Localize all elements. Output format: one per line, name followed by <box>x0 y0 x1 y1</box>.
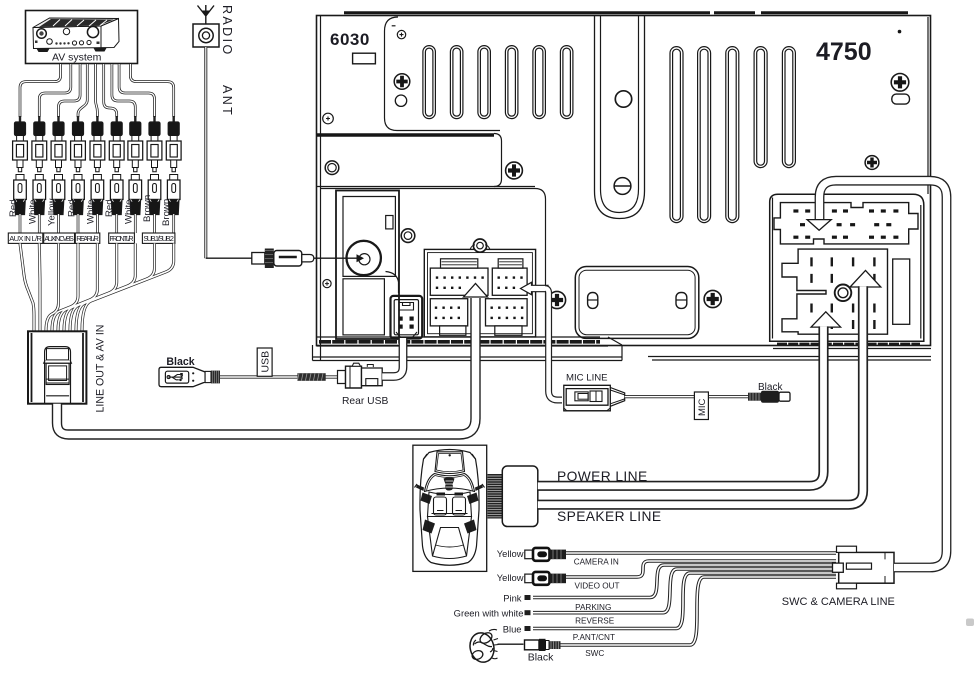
power arrow head <box>811 312 841 327</box>
svg-text:Blue: Blue <box>503 624 522 635</box>
screw right of band <box>506 162 523 179</box>
RCA column 4 Red <box>71 116 86 215</box>
wire stubs plugs to boxes <box>20 214 174 233</box>
svg-text:ANT: ANT <box>220 85 234 117</box>
svg-text:SWC: SWC <box>585 649 604 658</box>
6030 small rect <box>353 53 376 64</box>
vent slots right group <box>670 47 795 223</box>
svg-text:Red: Red <box>104 199 115 217</box>
SECTION: radioant <box>193 5 364 268</box>
wires from AV box to plugs <box>20 64 174 117</box>
unit outer body <box>317 16 931 346</box>
svg-text:Yellow: Yellow <box>497 548 524 559</box>
SECTION: isopanel <box>770 194 924 341</box>
arrow into right multipin <box>521 282 549 294</box>
svg-text:SUB.1/SUB.2: SUB.1/SUB.2 <box>143 234 174 243</box>
blank plate <box>575 267 699 339</box>
iso right slot rect <box>893 259 910 324</box>
screw tiny left edge <box>323 113 334 124</box>
SECTION: lineout <box>28 284 488 435</box>
cabin seats <box>428 492 472 517</box>
SECTION: rca <box>0 0 1 1</box>
svg-text:FRONT L/R: FRONT L/R <box>110 234 134 243</box>
connector TR <box>492 259 527 296</box>
svg-text:Green with white: Green with white <box>454 608 524 619</box>
rear speakers <box>423 520 436 534</box>
lower connector panel outline <box>321 189 546 338</box>
svg-text:REAR L/R: REAR L/R <box>76 234 99 243</box>
swc camera connector <box>833 546 895 589</box>
RCA column 9 Brown <box>166 116 181 215</box>
screw right of plate <box>704 290 721 307</box>
mic cable right <box>625 395 748 398</box>
color labels <box>454 548 524 635</box>
windshield <box>425 474 475 492</box>
screw tiny in panel <box>323 280 331 288</box>
USB tag <box>257 348 272 376</box>
amplifier drawing <box>33 18 119 52</box>
plug neck ribbed <box>205 371 211 382</box>
antenna panel small tab <box>386 216 393 229</box>
antenna jack circle <box>347 241 381 275</box>
back panel rounded corner <box>385 17 501 131</box>
screw cross mid-left <box>394 74 410 90</box>
antenna sub-panel <box>336 191 399 340</box>
braided section <box>297 373 325 381</box>
video out jack <box>525 572 566 585</box>
RCA column 1 Red <box>13 116 28 215</box>
power connector block <box>502 466 538 527</box>
SECTION: bottomrows <box>454 181 947 665</box>
svg-text:Brown: Brown <box>161 199 172 226</box>
ring on step band <box>325 161 339 175</box>
connector TL <box>430 259 488 296</box>
svg-text:AV system: AV system <box>52 52 102 64</box>
svg-text:P.ANT/CNT: P.ANT/CNT <box>573 633 615 642</box>
channel circle top <box>615 91 631 107</box>
RCA column 5 White <box>90 116 105 215</box>
speaker line cable <box>538 286 863 504</box>
svg-text:MIC LINE: MIC LINE <box>566 373 608 384</box>
svg-text:Yellow: Yellow <box>497 572 524 583</box>
small rounded slot below screw <box>892 94 910 104</box>
emblem <box>444 477 455 490</box>
screw left of plate <box>548 291 565 308</box>
vent slots left group <box>423 46 573 119</box>
small circle below screw <box>395 95 406 106</box>
SECTION: avsystem <box>26 11 138 64</box>
label box SUB.1/SUB.2 <box>142 233 175 243</box>
svg-text:SWC & CAMERA LINE: SWC & CAMERA LINE <box>782 596 895 608</box>
SECTION: rca <box>8 64 181 331</box>
SECTION: connpanel <box>323 191 721 340</box>
RCA column 8 Brown <box>147 116 162 215</box>
svg-text:VIDEO OUT: VIDEO OUT <box>575 581 620 590</box>
iso panel frame <box>770 194 924 341</box>
step band right edge <box>494 134 502 187</box>
bottom rail left <box>313 337 623 361</box>
svg-text:AUX IN L/R: AUX IN L/R <box>9 234 42 243</box>
svg-text:Black: Black <box>166 356 194 368</box>
svg-text:Black: Black <box>528 652 554 664</box>
multipin frame <box>424 249 535 337</box>
cables from boxes to lineout block <box>20 243 174 330</box>
scan artifact <box>966 619 974 627</box>
label box FRONT L/R <box>109 233 135 243</box>
power line cable <box>538 326 824 485</box>
swc barrel plug <box>525 639 561 651</box>
step band top dark edge <box>317 133 495 136</box>
svg-text:SPEAKER LINE: SPEAKER LINE <box>557 509 661 524</box>
svg-text:PARKING: PARKING <box>575 603 611 612</box>
svg-text:White: White <box>86 199 97 224</box>
steering wheel icon <box>467 629 499 664</box>
unit left inner edge <box>320 16 322 361</box>
arrow line to jack <box>314 257 357 259</box>
iso block outline <box>782 249 888 334</box>
iso block center circle <box>835 285 852 302</box>
car box <box>413 445 487 571</box>
screw cross top-right <box>891 74 909 92</box>
svg-text:Pink: Pink <box>503 593 522 604</box>
antenna plug <box>206 249 314 269</box>
label box AUX IN CVBS <box>44 233 75 243</box>
rear usb connector <box>338 363 383 388</box>
swc loop cable <box>820 181 947 568</box>
curve right of antenna panel <box>386 272 399 294</box>
svg-text:6030: 6030 <box>330 30 370 49</box>
middle channel <box>595 16 645 219</box>
multipin top ring <box>470 239 490 252</box>
svg-text:AUX IN CVBS: AUX IN CVBS <box>44 234 74 243</box>
row wires <box>533 553 836 645</box>
unit right inner edge <box>927 17 929 194</box>
svg-text:Rear USB: Rear USB <box>342 396 388 407</box>
radio ant box <box>193 24 219 47</box>
taper <box>610 388 624 407</box>
RCA column 7 White <box>128 116 143 215</box>
svg-text:LINE OUT & AV IN: LINE OUT & AV IN <box>94 325 106 413</box>
svg-text:MIC: MIC <box>697 398 708 416</box>
ring top-right of antenna panel <box>401 229 415 243</box>
svg-text:RADIO: RADIO <box>220 5 234 57</box>
18-pin connector outline <box>774 203 918 244</box>
RCA column 2 White <box>32 116 47 215</box>
SECTION: mic <box>521 282 791 419</box>
hood <box>435 452 465 474</box>
svg-text:POWER LINE: POWER LINE <box>557 469 648 484</box>
mic end barrel <box>748 391 790 403</box>
channel screw slot <box>614 178 631 195</box>
antenna symbol <box>198 5 215 24</box>
MIC tag <box>694 392 708 420</box>
antenna panel inner top box <box>343 197 395 277</box>
down arrow head into 18pin <box>807 220 831 231</box>
SECTION: unit <box>313 13 932 361</box>
connector BR <box>486 299 528 336</box>
row end stubs <box>525 595 531 631</box>
label box REAR L/R <box>75 233 100 243</box>
antenna wire down <box>204 47 207 258</box>
line name labels <box>573 558 620 658</box>
mic inline connector <box>564 385 625 411</box>
antenna panel inner bottom box <box>343 279 384 335</box>
rear deck <box>428 517 472 559</box>
svg-text:Red: Red <box>8 199 19 217</box>
unit top dark accent line <box>344 11 908 14</box>
SECTION: car <box>413 270 881 571</box>
swc wire to barrel <box>498 643 524 645</box>
svg-text:REVERSE: REVERSE <box>575 617 615 626</box>
camera in jack <box>525 548 566 561</box>
step band bottom edge <box>317 186 536 188</box>
svg-text:White: White <box>28 199 39 224</box>
small dot <box>898 30 902 34</box>
screw tiny top <box>392 26 406 39</box>
car body outline <box>420 450 479 566</box>
label box AUX IN L/R <box>8 233 43 243</box>
RCA column 6 Red <box>109 116 124 215</box>
svg-text:White: White <box>124 199 135 224</box>
front speakers <box>421 493 433 505</box>
18-pin pins <box>793 209 898 238</box>
AV system box <box>26 11 138 64</box>
svg-text:CAMERA IN: CAMERA IN <box>574 558 619 567</box>
svg-text:4750: 4750 <box>816 38 872 66</box>
antenna jack center <box>359 254 370 265</box>
iso block pins <box>812 257 875 329</box>
usb port on unit <box>391 296 423 339</box>
USB-A plug <box>159 367 205 386</box>
svg-text:USB: USB <box>260 351 272 373</box>
harness ribbon <box>488 474 503 519</box>
block connector tongue <box>45 347 71 403</box>
bottom rail right <box>648 341 931 360</box>
svg-text:Yellow: Yellow <box>47 199 58 226</box>
connector BL <box>430 299 467 336</box>
mirrors <box>416 485 483 492</box>
mic wire <box>545 289 562 401</box>
svg-text:Red: Red <box>67 199 78 217</box>
speaker arrow head <box>850 270 881 287</box>
SECTION: usb <box>159 338 403 407</box>
RCA column 3 Yellow <box>51 116 66 215</box>
arrow into left multipin <box>464 284 488 298</box>
line out block <box>28 331 86 403</box>
color labels <box>8 195 172 226</box>
cable from block to arrow <box>57 298 476 435</box>
svg-text:Brown: Brown <box>142 195 153 222</box>
usb cable <box>220 375 339 378</box>
screw small mid-right <box>865 156 879 170</box>
wire from connector up to usb port <box>382 338 403 377</box>
